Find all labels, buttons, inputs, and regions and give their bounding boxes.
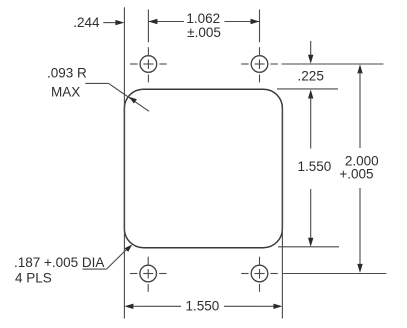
- dimension .225 (hole center line to top edge): [298, 41, 324, 84]
- svg-text:MAX: MAX: [51, 85, 80, 100]
- right edge extension line: [281, 108, 283, 319]
- label .187 +.005 DIA 4 PLS with leader to corner hole: [14, 245, 132, 286]
- dimension 1.550 (right side, top edge to bottom edge): [298, 90, 332, 247]
- hole H3 bottom-left (circle + center marks): [130, 257, 167, 292]
- dimension 1.062 +/-.005 (top, between hole center lines): [148, 10, 259, 43]
- svg-text:+.005: +.005: [339, 166, 373, 181]
- hole H1 top-left (circle + center marks): [130, 47, 167, 82]
- svg-text:±.005: ±.005: [187, 25, 221, 40]
- left edge extension line: [123, 7, 125, 318]
- svg-text:.093 R: .093 R: [47, 66, 87, 81]
- svg-text:1.062: 1.062: [186, 11, 220, 26]
- dimension 1.550 (bottom, between side edges): [124, 299, 282, 314]
- panel cutout outline (rounded square): [124, 89, 282, 248]
- hole H4 bottom-right (circle + center marks, extended right reference line): [241, 257, 386, 292]
- bottom edge extension line: [278, 246, 339, 248]
- dimension .244 (left edge to hole center line): [73, 15, 124, 30]
- svg-text:1.550: 1.550: [186, 299, 220, 314]
- top edge extension line: [277, 88, 338, 90]
- svg-text:4 PLS: 4 PLS: [15, 270, 52, 285]
- svg-text:.225: .225: [298, 69, 324, 84]
- svg-text:1.550: 1.550: [298, 159, 332, 174]
- svg-text:.244: .244: [73, 15, 100, 30]
- svg-text:.187 +.005 DIA: .187 +.005 DIA: [14, 255, 104, 270]
- dimension 2.000 +.005 (hole center to hole center, far right): [339, 64, 378, 273]
- hole H2 top-right (circle + center marks, extended right reference line): [241, 47, 383, 82]
- label .093 R MAX with leader to corner radius: [47, 66, 149, 112]
